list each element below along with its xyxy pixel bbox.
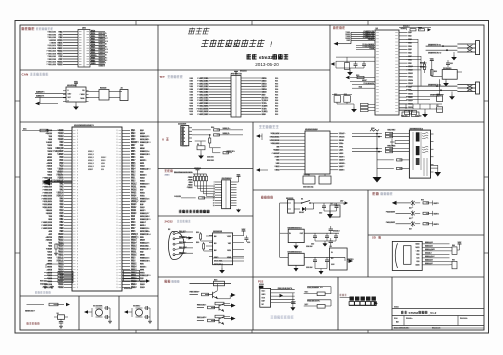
svg-text:P: P <box>116 189 117 191</box>
svg-text:PB0: PB0 <box>59 216 64 218</box>
push button row (5 keys, dense) <box>350 297 354 301</box>
svg-text:P: P <box>116 210 117 212</box>
svg-text:P: P <box>77 272 78 274</box>
svg-text:MOSI2: MOSI2 <box>46 213 53 215</box>
svg-text:P: P <box>116 160 117 162</box>
svg-text:R3 120: R3 120 <box>100 88 107 90</box>
svg-text:PA12: PA12 <box>131 206 137 209</box>
ground bottom right of J3 <box>238 208 240 211</box>
svg-text:PD13: PD13 <box>57 53 63 55</box>
svg-text:PF1: PF1 <box>59 145 64 147</box>
svg-text:P: P <box>116 219 117 221</box>
P3 pins and fan wires <box>173 233 175 235</box>
row1 input label and resistor <box>190 291 198 293</box>
svg-text:P: P <box>77 216 78 218</box>
svg-text:CAN: CAN <box>101 165 106 168</box>
svg-text:P: P <box>116 281 117 283</box>
header P1 4-pin with polarity marks <box>476 41 480 55</box>
boot labels <box>420 62 425 64</box>
svg-text:PC10: PC10 <box>131 189 137 191</box>
svg-text:P: P <box>116 192 117 194</box>
svg-text:FSMC_D11: FSMC_D11 <box>140 154 151 156</box>
title block line under title <box>392 315 484 317</box>
TX pair net labels <box>387 129 395 131</box>
opto part labels <box>409 207 412 208</box>
wire U2 CANL to R3 <box>86 97 99 99</box>
svg-text:VCC3.3: VCC3.3 <box>403 26 410 28</box>
svg-text:PA5: PA5 <box>408 48 412 51</box>
svg-text:FSMC_D14: FSMC_D14 <box>140 233 151 236</box>
svg-text:U4 24C02: U4 24C02 <box>213 230 223 233</box>
boxed net labels bottom-left of U3 <box>368 104 375 106</box>
svg-text:PB3: PB3 <box>131 157 136 159</box>
svg-text:RST: RST <box>262 94 267 96</box>
svg-text:VCC2.5: VCC2.5 <box>347 259 354 261</box>
svg-text:T_IRQ: T_IRQ <box>262 111 269 113</box>
svg-text:PE1: PE1 <box>131 130 136 132</box>
svg-text:P: P <box>77 249 78 251</box>
svg-text:VREF: VREF <box>88 169 94 171</box>
caps cluster lower mid <box>437 93 444 95</box>
MCU U1 body STM32F103VET6 <box>72 127 122 291</box>
VCC stub on U2 <box>75 84 77 87</box>
svg-text:PC9: PC9 <box>131 222 136 224</box>
row2 transistor Q3 <box>218 305 220 311</box>
svg-text:FSMC_D17: FSMC_D17 <box>47 51 56 53</box>
U7 ground <box>295 265 297 268</box>
svg-text:PD10: PD10 <box>58 281 64 283</box>
svg-text:VCC: VCC <box>457 242 462 244</box>
svg-text:PB3 PB4 PA15 PA13: PB3 PB4 PA15 PA13 <box>174 171 192 174</box>
svg-text:ADC10: ADC10 <box>45 236 52 239</box>
svg-text:MOSI: MOSI <box>47 160 53 162</box>
svg-text:P: P <box>77 166 78 168</box>
input cap C50 <box>314 202 324 204</box>
row3 transistor Q4 <box>218 318 220 324</box>
VBAT battery feed top left <box>22 130 64 132</box>
series resistors top right <box>410 29 416 31</box>
svg-text:BOOT0: BOOT0 <box>420 63 427 65</box>
svg-text:PD9: PD9 <box>131 257 136 259</box>
svg-text:USART1_RXD: USART1_RXD <box>428 51 442 54</box>
svg-text:VDDPLL: VDDPLL <box>339 163 346 165</box>
crystal cell 1 ground <box>109 308 111 317</box>
svg-text:PB4: PB4 <box>131 154 136 156</box>
svg-text:P: P <box>116 228 117 230</box>
svg-text:FSMC_D4: FSMC_D4 <box>43 177 53 180</box>
svg-text:BOOT0: BOOT0 <box>131 142 140 144</box>
svg-text:P: P <box>116 204 117 206</box>
svg-text:PB15: PB15 <box>131 263 137 265</box>
svg-text:P: P <box>116 216 117 218</box>
svg-text:P: P <box>77 231 78 233</box>
regulator U7 body <box>288 253 304 265</box>
motto line 2 (CJK italic): everywhere is your stage <box>201 39 265 46</box>
svg-text:SPI2_MOSI: SPI2_MOSI <box>270 140 280 142</box>
svg-text:PC5: PC5 <box>59 213 64 215</box>
svg-text:FSMC_D5: FSMC_D5 <box>140 243 150 245</box>
LED anode wires into RJ45 <box>395 140 409 142</box>
svg-text:FSMC_D15: FSMC_D15 <box>42 228 53 230</box>
board name bold: xinqian stm32 dev board <box>247 54 252 59</box>
svg-text:PB5: PB5 <box>131 151 136 153</box>
svg-text:PA5_OUT: PA5_OUT <box>386 221 396 224</box>
svg-text:VCC: VCC <box>236 175 241 177</box>
svg-text:VSS_3: VSS_3 <box>131 234 139 236</box>
svg-text:DB8: DB8 <box>189 100 193 102</box>
title block top line <box>392 308 484 310</box>
svg-text:TIM8_CH2: TIM8_CH2 <box>47 59 56 61</box>
svg-text:PB13: PB13 <box>58 266 64 268</box>
svg-text:P: P <box>77 142 78 144</box>
svg-text:PE8: PE8 <box>59 228 64 230</box>
svg-text:PD11: PD11 <box>131 252 137 254</box>
svg-text:P: P <box>116 284 117 286</box>
svg-text:PA6: PA6 <box>408 52 412 55</box>
U4 ground <box>221 265 223 268</box>
svg-text:FSMC_D7: FSMC_D7 <box>43 186 53 188</box>
svg-text:VREF-: VREF- <box>57 172 64 174</box>
svg-text:TPOUT+: TPOUT+ <box>339 133 346 135</box>
wires R3 to terminal J1 <box>109 91 120 93</box>
svg-text:PC12: PC12 <box>131 183 137 185</box>
row1 transistor Q2 <box>212 292 214 298</box>
title block board name <box>401 311 404 314</box>
svg-text:TPOUT-: TPOUT- <box>339 137 346 139</box>
svg-text:Revision: Revision <box>460 318 468 320</box>
svg-text:VCAP: VCAP <box>274 155 280 158</box>
svg-text:SPI2_SCK: SPI2_SCK <box>270 133 280 135</box>
svg-text:FSMC_NRS: FSMC_NRS <box>197 106 209 108</box>
svg-text:C20: C20 <box>437 94 440 96</box>
svg-text:USB_EN: USB_EN <box>227 151 236 153</box>
svg-text:TPIN+: TPIN+ <box>339 143 344 145</box>
svg-text:PC6: PC6 <box>131 231 136 233</box>
svg-text:C21: C21 <box>450 63 453 65</box>
RJ45 jack with magnetics HR911105A body <box>409 130 430 178</box>
svg-text:P: P <box>116 186 117 188</box>
opto row 1 diode <box>411 201 415 205</box>
bus entry arrow left <box>35 102 40 106</box>
reset ground <box>60 323 62 325</box>
svg-text:ADC10: ADC10 <box>140 174 147 177</box>
ground rail under crystal <box>336 67 364 69</box>
svg-text:VSS_4: VSS_4 <box>56 192 64 194</box>
reset arrow right <box>66 303 70 307</box>
svg-text:817: 817 <box>409 208 412 210</box>
RX pair net labels <box>387 145 395 147</box>
SD pullup resistors right <box>452 247 457 255</box>
U7 input wire <box>279 233 281 257</box>
svg-text:P: P <box>77 189 78 191</box>
svg-text:NRST: NRST <box>362 80 368 82</box>
svg-text:P: P <box>77 225 78 227</box>
svg-text:SDIO_D3: SDIO_D3 <box>425 246 433 248</box>
svg-text:DB1: DB1 <box>189 81 193 83</box>
svg-text:TX+ TX-: TX+ TX- <box>387 129 395 131</box>
svg-text:FSMC_D15: FSMC_D15 <box>140 219 151 221</box>
svg-text:VDDTX: VDDTX <box>339 156 346 158</box>
svg-text:PC1: PC1 <box>59 160 64 162</box>
svg-text:P30: P30 <box>275 106 278 108</box>
RX pair wires with series resistors <box>352 148 382 150</box>
U1 left extra net labels column <box>47 130 52 132</box>
svg-text:PD12: PD12 <box>57 51 63 53</box>
bold caption: five pullup resistors <box>179 210 182 213</box>
svg-text:2013-05-20: 2013-05-20 <box>255 62 279 67</box>
svg-text:P: P <box>77 130 78 132</box>
opto row 2 label <box>388 211 395 213</box>
U3 left pin group 1 wires with labels <box>351 31 375 33</box>
svg-text:USART1_TXD: USART1_TXD <box>428 43 442 46</box>
svg-text:ADC4: ADC4 <box>140 224 146 227</box>
svg-text:P: P <box>77 172 78 174</box>
load capacitor C15 <box>355 61 357 64</box>
opto row 1 arrow <box>392 201 397 205</box>
svg-text:ADC4: ADC4 <box>47 268 53 271</box>
svg-text:P: P <box>116 237 117 239</box>
svg-text:DB12: DB12 <box>262 83 268 85</box>
svg-text:PC4: PC4 <box>59 210 64 212</box>
svg-text:P: P <box>77 246 78 248</box>
svg-text:P: P <box>77 183 78 185</box>
U4 left pin names <box>214 236 216 238</box>
svg-text:BL_EN: BL_EN <box>262 97 269 99</box>
header P2 4-pin with polarity marks <box>476 82 480 94</box>
DC jack J5 <box>288 200 295 213</box>
svg-text:PD10: PD10 <box>131 255 137 257</box>
U4 right wires <box>233 235 244 237</box>
row3 rail and resistor <box>197 320 204 322</box>
svg-text:VCC3.3: VCC3.3 <box>425 253 432 255</box>
power switch S1 <box>294 202 302 204</box>
svg-text:C55 104: C55 104 <box>306 266 312 269</box>
svg-text:P: P <box>77 213 78 215</box>
mid extra cap C21 <box>447 60 449 63</box>
svg-text:FSMC_D10: FSMC_D10 <box>42 195 53 197</box>
svg-text:P: P <box>116 169 117 171</box>
svg-text:P29: P29 <box>275 103 278 105</box>
svg-text:P: P <box>116 272 117 274</box>
title block bottom double line <box>392 327 484 329</box>
junction dots USART1 <box>442 45 444 47</box>
RJ45 internal magnetics bars <box>416 132 420 141</box>
crystal cell 1 caps <box>91 308 93 317</box>
filter inductor box upper right <box>330 205 340 217</box>
ferrite bead top left of magnetics <box>370 129 379 131</box>
junction dots RX <box>376 148 378 150</box>
opto row 2 wire diode resistor <box>396 212 412 214</box>
svg-text:VDD_3: VDD_3 <box>131 237 139 239</box>
pullup resistor R16 vertical <box>209 135 211 138</box>
PS2 top wire label <box>278 288 289 290</box>
svg-text:FSMC_D13: FSMC_D13 <box>42 222 53 224</box>
svg-text:PB11: PB11 <box>58 255 64 257</box>
right boxed labels bottom <box>124 270 140 273</box>
svg-text:VSS VDD: VSS VDD <box>124 288 133 290</box>
svg-text:DB11: DB11 <box>262 81 268 83</box>
svg-text:PA10: PA10 <box>131 212 137 215</box>
top rail <box>193 173 207 175</box>
U3 right pin stubs <box>399 32 408 34</box>
svg-text:T_CLK: T_CLK <box>262 100 269 102</box>
USB connector J2 body <box>181 126 189 146</box>
svg-text:C17: C17 <box>334 94 337 96</box>
svg-text:P: P <box>77 195 78 197</box>
svg-text:FSMC_D11: FSMC_D11 <box>140 260 151 262</box>
pullup net labels column <box>189 176 193 178</box>
svg-text:PE9: PE9 <box>59 231 64 233</box>
PS2 connector body <box>260 288 271 307</box>
svg-text:P: P <box>116 178 117 180</box>
svg-text:D5 M7: D5 M7 <box>299 212 304 214</box>
U1 internal pin number columns <box>73 130 76 132</box>
reset net label <box>25 310 33 312</box>
U8 internal labels <box>331 252 333 253</box>
svg-text:U7 AMS1117-2.5: U7 AMS1117-2.5 <box>288 251 302 254</box>
svg-text:DB4: DB4 <box>189 88 193 91</box>
svg-text:5: 5 <box>214 187 215 189</box>
svg-text:P: P <box>116 278 117 280</box>
svg-text:SPI2_MISO: SPI2_MISO <box>270 137 281 139</box>
svg-text:P: P <box>116 139 117 141</box>
reset section red label <box>27 322 29 324</box>
svg-text:DB15: DB15 <box>262 92 268 94</box>
svg-text:P20: P20 <box>275 78 278 80</box>
svg-text:P: P <box>77 151 78 153</box>
svg-text:P: P <box>77 163 78 165</box>
BOOT0 resistor row <box>181 197 196 199</box>
wire U2 CANH to R3 <box>86 91 99 93</box>
svg-text:FSMC_DB8: FSMC_DB8 <box>197 100 209 102</box>
reset cap C60 <box>60 319 62 321</box>
svg-text:PC13: PC13 <box>57 40 63 42</box>
svg-text:DB3: DB3 <box>189 86 193 88</box>
svg-text:VCC: VCC <box>74 81 79 83</box>
svg-text:13: 13 <box>213 197 215 199</box>
section label: buzzer drive (red CJK) <box>165 280 168 283</box>
J3 pin rows <box>215 181 222 183</box>
svg-text:PB1: PB1 <box>59 219 64 221</box>
svg-text:P: P <box>116 213 117 215</box>
title block Title label <box>394 306 399 308</box>
pullup resistors I2C <box>200 232 202 234</box>
svg-text:P: P <box>116 222 117 224</box>
keys bottom bar <box>349 304 376 306</box>
opto row 3 label <box>388 222 395 224</box>
svg-text:P: P <box>77 201 78 203</box>
svg-text:TIM3_CH2: TIM3_CH2 <box>47 34 56 36</box>
reset key switch <box>58 315 65 320</box>
CAN transceiver U2 VP230 body <box>66 87 86 102</box>
svg-text:LEDB: LEDB <box>339 153 344 155</box>
second VCC bar top <box>419 28 421 31</box>
svg-text:PB13: PB13 <box>408 76 413 78</box>
svg-text:P: P <box>77 178 78 180</box>
svg-text:FSMC_D20: FSMC_D20 <box>47 64 56 66</box>
U5 left pin rows with labels <box>280 133 305 135</box>
power ground below U2 <box>75 102 77 105</box>
svg-text:P: P <box>77 255 78 257</box>
svg-text:P: P <box>77 207 78 209</box>
svg-text:MOSI: MOSI <box>47 266 53 268</box>
TFT connector JP2 body <box>231 76 241 118</box>
svg-text:PD13: PD13 <box>131 246 137 248</box>
svg-text:P: P <box>77 198 78 200</box>
svg-text:PA1: PA1 <box>408 35 412 38</box>
section label: power circuit (red CJK) <box>261 196 264 199</box>
U1 right pin rows <box>122 130 130 132</box>
svg-text:TFT: TFT <box>160 75 166 79</box>
wires to USB_D labels <box>217 129 243 131</box>
USART2 wire pair to header <box>411 85 457 87</box>
svg-text:P: P <box>116 130 117 132</box>
crystal boxes under U5 <box>303 176 315 184</box>
svg-text:P: P <box>77 175 78 177</box>
svg-text:SDIO: SDIO <box>101 160 106 162</box>
svg-text:PE7: PE7 <box>59 225 64 227</box>
row3 top resistor and arrow <box>215 315 224 318</box>
svg-text:PE0: PE0 <box>131 133 136 135</box>
svg-text:JTAG: JTAG <box>165 174 171 177</box>
svg-text:DB_SCL: DB_SCL <box>179 231 187 233</box>
svg-text:SD: SD <box>372 236 376 240</box>
extra boxed labels bottom mid <box>402 112 410 117</box>
svg-text:TIM8_CH1: TIM8_CH1 <box>47 56 56 58</box>
svg-text:PS2_CLK_DATA: PS2_CLK_DATA <box>278 287 293 290</box>
svg-text:I2C1_SCL: I2C1_SCL <box>214 261 224 263</box>
svg-text:Size: Size <box>394 318 398 320</box>
svg-text:VSS_1: VSS_1 <box>88 160 94 162</box>
buzzer row 1 top rail <box>190 283 226 285</box>
svg-text:PB8: PB8 <box>131 139 136 141</box>
svg-text:NRST: NRST <box>57 154 64 156</box>
svg-text:PA0: PA0 <box>408 31 412 34</box>
bus arrow left of group 1 <box>334 42 339 46</box>
svg-text:PC11: PC11 <box>131 186 137 188</box>
JTAG IC J3 body <box>222 180 231 209</box>
svg-text:JP2 TFT_34: JP2 TFT_34 <box>230 72 242 75</box>
svg-text:P: P <box>116 243 117 245</box>
svg-text:VDD_2: VDD_2 <box>131 201 139 203</box>
svg-text:PB5_BEEP: PB5_BEEP <box>190 291 201 293</box>
svg-text:MOSI: MOSI <box>140 240 146 242</box>
left mid rows into U3 <box>352 84 375 86</box>
svg-text:PB14: PB14 <box>58 269 64 271</box>
svg-text:BOOT1: BOOT1 <box>420 67 427 69</box>
svg-text:CON6: CON6 <box>259 284 264 286</box>
svg-text:D1: D1 <box>197 144 199 146</box>
svg-text:SDIO_D2: SDIO_D2 <box>425 242 433 244</box>
svg-text:PA4_OUT: PA4_OUT <box>386 211 396 214</box>
svg-text:PA10: PA10 <box>408 92 413 95</box>
svg-text:P: P <box>77 240 78 242</box>
svg-text:I2C2_SCL: I2C2_SCL <box>140 246 150 248</box>
svg-text:DB5: DB5 <box>189 92 193 94</box>
svg-text:PD14: PD14 <box>131 243 137 245</box>
crystal circuit box left <box>336 56 375 58</box>
svg-text:FSMC_NE1: FSMC_NE1 <box>197 114 209 116</box>
svg-text:_V1.2: _V1.2 <box>428 311 437 315</box>
svg-text:FSMC_DB9: FSMC_DB9 <box>197 103 209 105</box>
svg-text:PA5: PA5 <box>59 200 64 203</box>
U5 right pin rows <box>330 133 338 135</box>
svg-text:OSC1: OSC1 <box>274 166 279 168</box>
svg-text:PB1: PB1 <box>408 63 412 65</box>
svg-text:FSMC_D4: FSMC_D4 <box>140 256 150 259</box>
svg-text:S2: S2 <box>57 313 59 315</box>
ENC28J60 U5 body <box>305 131 330 174</box>
